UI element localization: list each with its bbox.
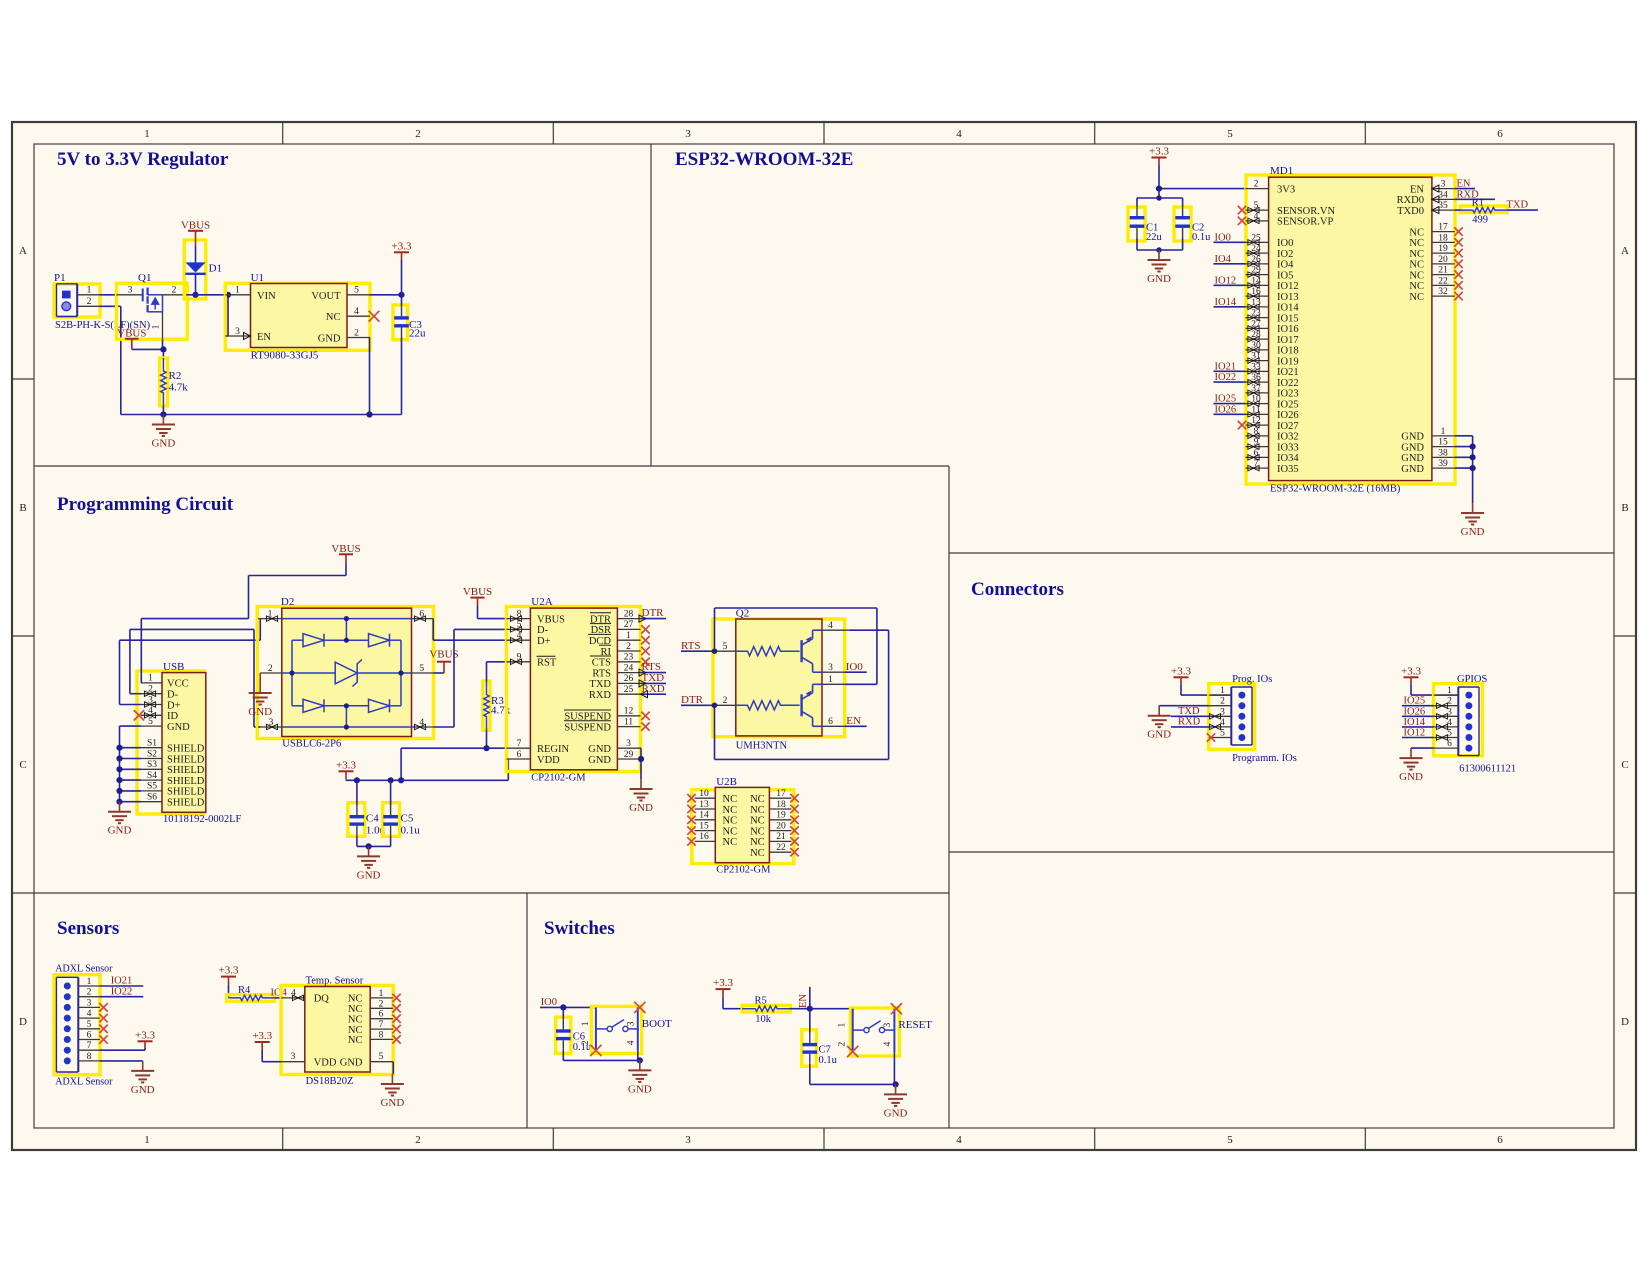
svg-text:10k: 10k (755, 1014, 772, 1025)
svg-text:GND: GND (628, 1083, 652, 1095)
no-connect X BOOT pin2 (590, 1045, 601, 1056)
pin 36 IO22 of MD1 (1246, 381, 1269, 383)
wire down to decoupling caps (1158, 189, 1160, 198)
svg-text:17: 17 (776, 789, 786, 799)
svg-text:S2: S2 (147, 749, 157, 759)
diode D1 selection highlight (184, 240, 206, 299)
pin 6 VDD of U2A (507, 758, 531, 760)
svg-text:2: 2 (415, 1134, 421, 1146)
wire Q1.1 down to node VBUS (162, 339, 164, 349)
svg-text:A: A (1621, 245, 1629, 257)
junction C4 top (354, 777, 360, 783)
pin 34 RXD0 of MD1 (1432, 198, 1455, 200)
resistor R1 selection highlight (1460, 206, 1507, 213)
lower-right diode of D2 (369, 699, 390, 712)
svg-text:3: 3 (626, 739, 631, 749)
resistor R2 selection highlight (160, 358, 168, 406)
svg-text:3: 3 (291, 1052, 296, 1062)
pin 8 NC of DS18B20Z (370, 1038, 393, 1040)
net label IO4 wire R4 to DQ (274, 997, 281, 999)
svg-text:DQ: DQ (314, 994, 330, 1005)
pin 4 of GPIOS (1434, 726, 1459, 728)
svg-text:DTR: DTR (642, 607, 665, 619)
no-connect X marks on U2A right pins (641, 625, 649, 633)
svg-text:USBLC6-2P6: USBLC6-2P6 (282, 739, 341, 750)
transistor Q2 selection highlight (713, 619, 845, 737)
wire shield S2 to bus (120, 758, 142, 760)
junction shield S6 (116, 799, 122, 805)
svg-text:39: 39 (1438, 459, 1448, 469)
svg-text:VBUS: VBUS (537, 614, 565, 625)
wire shield S5 to bus (120, 790, 142, 792)
connector ADXL Sensor selection highlight (54, 975, 100, 1075)
pin 25 RXD of U2A (617, 693, 640, 695)
svg-text:499: 499 (1472, 215, 1488, 226)
module MD1 selection highlight (1246, 175, 1455, 484)
transistor Q2 body (736, 619, 822, 736)
pin 1 DCD of U2A (617, 639, 640, 641)
net label IO21 at ADXL pin1 (100, 985, 143, 987)
ground symbol GND ADXL (142, 1061, 144, 1071)
D2 internal bottom rail (282, 726, 412, 728)
svg-text:18: 18 (776, 800, 786, 810)
net label EN at MD1 (1455, 188, 1475, 190)
pin 5 GND of DS18B20Z (370, 1061, 393, 1063)
wire C4-C5 bottom rail (357, 845, 391, 847)
wire +3.3 down to VOUT node (401, 260, 403, 295)
svg-text:RXD: RXD (1178, 717, 1201, 728)
junction EN-C7 node (807, 1006, 813, 1012)
junction U2A GND29 (638, 756, 644, 762)
svg-text:IO22: IO22 (1215, 372, 1237, 383)
header GPIOS 61300611121 (1457, 674, 1516, 775)
svg-text:R2: R2 (169, 370, 182, 382)
svg-text:GND: GND (248, 706, 272, 718)
svg-text:4.7k: 4.7k (169, 382, 189, 394)
svg-text:TXD: TXD (1178, 706, 1200, 717)
pin 7 REGIN of U2A (507, 747, 531, 749)
net label IO14 at GPIOS (1402, 726, 1434, 728)
svg-text:5: 5 (419, 664, 424, 674)
svg-text:D+: D+ (167, 700, 181, 711)
pin 5 of ADXL Sensor (78, 1028, 100, 1030)
pin 3 of Q1 (117, 294, 143, 296)
svg-text:EN: EN (1457, 179, 1471, 190)
USB bridge U2A selection highlight (507, 607, 641, 772)
svg-text:34: 34 (1438, 190, 1448, 200)
pin 21 NC of MD1 (1432, 274, 1455, 276)
D2 internal junctions (344, 616, 349, 621)
capacitor C4 (356, 780, 358, 805)
pin 20 NC of MD1 (1432, 263, 1455, 265)
svg-text:IO16: IO16 (1277, 324, 1299, 335)
pin 20 NC of U2B (769, 830, 791, 832)
svg-text:RT9080-33GJ5: RT9080-33GJ5 (251, 350, 319, 362)
junction caps rail (1156, 195, 1161, 200)
pin 1 of Prog IOs (1209, 694, 1232, 696)
wire ADXL pin7 to +3.3 (100, 1049, 145, 1051)
svg-text:1: 1 (828, 675, 833, 685)
svg-text:GND: GND (1147, 729, 1171, 741)
svg-text:GND: GND (131, 1084, 155, 1096)
pin 3 of Prog IOs (1209, 715, 1232, 717)
svg-text:5: 5 (1227, 128, 1233, 140)
svg-text:+3.3: +3.3 (1171, 665, 1191, 677)
svg-text:IO26: IO26 (1277, 410, 1299, 421)
junction BOOT GND node (637, 1057, 643, 1063)
wire DS18B20Z GND pin to ground (392, 1062, 394, 1074)
capacitor C3 selection highlight (393, 305, 408, 340)
pin 2 of P1 (77, 305, 99, 307)
pin 16 NC of U2B (695, 840, 716, 842)
pin 1 VCC of USB (141, 682, 162, 684)
svg-text:28: 28 (624, 609, 634, 619)
pin 3 of ADXL Sensor (78, 1006, 100, 1008)
capacitor C6 selection highlight (556, 1017, 571, 1053)
svg-text:Connectors: Connectors (971, 579, 1064, 600)
svg-text:4: 4 (87, 1009, 92, 1019)
net label IO12 at GPIOS (1402, 737, 1434, 739)
svg-text:U2A: U2A (531, 596, 552, 608)
svg-text:1: 1 (626, 631, 631, 641)
junction shield S4 (116, 777, 122, 783)
net label IO26 at GPIOS (1402, 715, 1434, 717)
pin 1 VIN of U1 (225, 294, 250, 296)
net label IO26 wire at MD1 (1214, 413, 1246, 415)
svg-text:GND: GND (884, 1107, 908, 1119)
capacitor C1 (1136, 198, 1138, 206)
wire VBUS to D1 anode (195, 246, 197, 262)
pin 14 NC of U2B (695, 819, 716, 821)
svg-text:+3.3: +3.3 (392, 240, 412, 252)
wire +3.3 to ESP32 3V3 (1158, 166, 1160, 189)
wire GPIOS pin6 to GND (1411, 747, 1434, 749)
svg-text:GND: GND (588, 744, 611, 755)
svg-text:ADXL Sensor: ADXL Sensor (55, 964, 113, 975)
pin 27 IO16 of MD1 (1246, 327, 1269, 329)
svg-text:5V to 3.3V Regulator: 5V to 3.3V Regulator (57, 149, 229, 170)
svg-text:S4: S4 (147, 771, 157, 781)
pin 32 NC of MD1 (1432, 295, 1455, 297)
svg-text:6: 6 (379, 1010, 384, 1020)
pin 10 NC of U2B (695, 797, 716, 799)
svg-text:3: 3 (685, 1134, 691, 1146)
wire Q2 pin1 cross-couple to RTS node (845, 683, 877, 685)
svg-text:Programm. IOs: Programm. IOs (1232, 753, 1297, 764)
wire rail up to U2A VDD (507, 759, 509, 780)
pin 5 SENSOR.VN of MD1 (1246, 209, 1269, 211)
pin 6 of Q2 (813, 725, 822, 727)
svg-text:RTS: RTS (592, 668, 611, 679)
svg-text:IO0: IO0 (541, 997, 557, 1008)
svg-text:38: 38 (1438, 448, 1448, 458)
svg-text:10: 10 (699, 789, 709, 799)
wire shield S4 to bus (120, 779, 142, 781)
svg-text:GND: GND (318, 334, 341, 345)
svg-text:4: 4 (828, 621, 833, 631)
svg-text:1: 1 (152, 324, 162, 329)
svg-text:6: 6 (87, 1031, 92, 1041)
pin 2 of ADXL Sensor (78, 996, 100, 998)
pin 25 IO0 of MD1 (1246, 241, 1269, 243)
svg-text:1: 1 (1441, 427, 1446, 437)
pin 22 NC of MD1 (1432, 284, 1455, 286)
svg-text:1: 1 (87, 977, 92, 987)
svg-text:EN: EN (257, 332, 271, 343)
transistor Q1 (138, 272, 163, 312)
svg-text:26: 26 (624, 674, 634, 684)
connector P1 (54, 272, 77, 317)
USB bridge U2B selection highlight (692, 790, 794, 864)
svg-text:SHIELD: SHIELD (167, 798, 205, 809)
svg-text:3: 3 (1441, 180, 1446, 190)
pin 4 D+ of U2A (507, 639, 531, 641)
svg-text:GND: GND (588, 755, 611, 766)
svg-text:RST: RST (537, 658, 557, 669)
svg-text:+3.3: +3.3 (336, 759, 356, 771)
diode D1 (185, 262, 205, 272)
pin 28 IO17 of MD1 (1246, 338, 1269, 340)
junction C5 top (388, 777, 394, 783)
svg-text:IO14: IO14 (1215, 297, 1237, 308)
wire shield S6 to bus (120, 801, 142, 803)
svg-text:SHIELD: SHIELD (167, 787, 205, 798)
svg-text:IO21: IO21 (1277, 367, 1299, 378)
svg-text:Switches: Switches (544, 918, 615, 939)
svg-text:D1: D1 (209, 263, 222, 275)
row ticks and labels (12, 378, 34, 380)
svg-text:TXD: TXD (589, 679, 611, 690)
svg-text:IO15: IO15 (1277, 313, 1299, 324)
net label IO4 wire at MD1 (1214, 263, 1246, 265)
capacitor C4 selection highlight (348, 803, 365, 837)
svg-text:1: 1 (148, 674, 153, 684)
net label TXD at R1 (1507, 209, 1538, 211)
regulator U1 body (251, 284, 348, 348)
pin 29 IO5 of MD1 (1246, 274, 1269, 276)
pin 3 EN of MD1 (1432, 188, 1455, 190)
svg-text:35: 35 (1438, 201, 1448, 211)
capacitor C5 (390, 780, 392, 805)
pin 18 NC of U2B (769, 808, 791, 810)
lower-left diode of D2 (303, 699, 324, 712)
svg-text:EN: EN (846, 715, 861, 727)
temp sensor DS18B20Z body (305, 987, 370, 1073)
svg-text:5: 5 (354, 286, 359, 296)
svg-text:1: 1 (1220, 686, 1225, 696)
D2 internal upper diode row (292, 639, 303, 641)
svg-text:17: 17 (1438, 223, 1448, 233)
svg-text:IO21: IO21 (111, 976, 133, 987)
temp sensor selection highlight (281, 986, 393, 1075)
net label IO14 wire at MD1 (1214, 306, 1246, 308)
USB bridge U2A body (530, 608, 617, 770)
wire C6 bottom to switch GND (563, 1059, 640, 1061)
svg-text:11: 11 (624, 717, 633, 727)
svg-text:EN: EN (798, 994, 809, 1008)
svg-text:S6: S6 (147, 793, 157, 803)
pin 26 IO4 of MD1 (1246, 263, 1269, 265)
wire R2 bottom to GND rail (162, 406, 164, 415)
svg-text:IO19: IO19 (1277, 356, 1299, 367)
power flag VBUS at D2 pin5 (433, 672, 444, 674)
svg-text:4: 4 (883, 1041, 893, 1046)
svg-text:4: 4 (354, 307, 359, 317)
svg-text:R1: R1 (1472, 197, 1484, 208)
junction GND bus 38 (1470, 454, 1476, 460)
svg-text:RESET: RESET (898, 1019, 932, 1031)
svg-text:22u: 22u (409, 328, 426, 340)
svg-text:SHIELD: SHIELD (167, 744, 205, 755)
svg-text:1: 1 (838, 1022, 848, 1027)
pin 9 RST of U2A (507, 661, 531, 663)
svg-text:D+: D+ (537, 636, 551, 647)
wire VIN to EN tie (227, 295, 229, 336)
svg-text:NC: NC (348, 994, 363, 1005)
header Prog. IOs (1231, 674, 1297, 764)
svg-text:3: 3 (128, 286, 133, 296)
svg-text:+3.3: +3.3 (135, 1029, 155, 1041)
svg-text:3V3: 3V3 (1277, 184, 1295, 195)
svg-text:GND: GND (357, 869, 381, 881)
svg-text:2: 2 (379, 999, 384, 1009)
pin 14 IO12 of MD1 (1246, 284, 1269, 286)
resistor R4 (229, 995, 275, 1000)
pin 1 of P1 (77, 294, 99, 296)
pin 17 NC of MD1 (1432, 231, 1455, 233)
svg-text:2: 2 (723, 696, 728, 706)
pin 5 of D2 (412, 672, 434, 674)
USB connector body (162, 673, 206, 813)
header GPIOS selection highlight (1434, 684, 1483, 756)
junction IO0-C6 (560, 1004, 566, 1010)
svg-text:NC: NC (1409, 260, 1424, 271)
svg-text:GND: GND (151, 438, 175, 450)
svg-text:IO14: IO14 (1277, 303, 1299, 314)
svg-text:NC: NC (1409, 281, 1424, 292)
svg-text:CTS: CTS (592, 658, 611, 669)
svg-text:7: 7 (517, 739, 522, 749)
pin 30 IO18 of MD1 (1246, 349, 1269, 351)
svg-text:GPIOS: GPIOS (1457, 674, 1488, 685)
caps bottom rail (1137, 249, 1183, 251)
pin 17 NC of U2B (769, 797, 791, 799)
svg-text:GND: GND (380, 1097, 404, 1109)
pin 4 ID of USB (141, 714, 162, 716)
junction D1-VIN (192, 292, 198, 298)
net label RXD at Prog IOs (1171, 726, 1209, 728)
svg-text:29: 29 (624, 750, 634, 760)
svg-text:B: B (1621, 502, 1628, 514)
pin 11 IO26 of MD1 (1246, 413, 1269, 415)
svg-text:13: 13 (699, 800, 709, 810)
pin 3 VDD of DS18B20Z (281, 1061, 305, 1063)
svg-text:VBUS: VBUS (331, 543, 360, 555)
wire R3 bottom to REGIN line (486, 730, 488, 748)
svg-text:SUSPEND: SUSPEND (564, 722, 611, 733)
svg-text:5: 5 (1227, 1134, 1233, 1146)
pin S5 SHIELD of USB (141, 790, 162, 792)
wire P1.2 down to GND rail (100, 305, 121, 307)
svg-text:CP2102-GM: CP2102-GM (531, 772, 586, 783)
junction node VBUS-R2 (160, 346, 166, 352)
svg-text:IO18: IO18 (1277, 346, 1299, 357)
ground symbol GND ESP32 (1472, 503, 1474, 513)
svg-text:IO22: IO22 (111, 986, 133, 997)
D2 internal top rail (282, 618, 412, 620)
resistor R3 (484, 681, 489, 730)
pin 2 of GPIOS (1434, 705, 1459, 707)
wire MD1 TXD0 to R1 (1455, 209, 1461, 211)
svg-text:IO0: IO0 (1215, 232, 1231, 243)
pin 2 NC of DS18B20Z (370, 1007, 393, 1009)
svg-text:NC: NC (723, 794, 738, 805)
wire MD1 GND pins to ground bus (1455, 435, 1473, 437)
svg-text:2: 2 (626, 642, 631, 652)
pin 19 NC of MD1 (1432, 252, 1455, 254)
pin 1 of ADXL Sensor (78, 985, 100, 987)
svg-text:16: 16 (699, 832, 709, 842)
svg-text:NC: NC (1409, 227, 1424, 238)
upper transistor of Q2 with base resistor (736, 647, 800, 656)
svg-text:2: 2 (354, 328, 359, 338)
pin 5 of Q2 (713, 650, 736, 652)
svg-text:NC: NC (750, 826, 765, 837)
svg-text:C5: C5 (401, 812, 414, 824)
wire D2 pin6 to U2A D+ (432, 619, 434, 641)
svg-text:0.1u: 0.1u (1192, 232, 1211, 243)
svg-text:B: B (19, 502, 26, 514)
pin 12 SUSPEND of U2A (617, 715, 640, 717)
ground symbol GND BOOT (639, 1060, 641, 1070)
svg-text:15: 15 (699, 821, 709, 831)
pin 37 IO23 of MD1 (1246, 392, 1269, 394)
pin 33 IO21 of MD1 (1246, 370, 1269, 372)
svg-text:20: 20 (776, 821, 786, 831)
svg-text:IO23: IO23 (1277, 389, 1299, 400)
svg-text:21: 21 (1438, 266, 1448, 276)
pin 13 NC of U2B (695, 808, 716, 810)
svg-text:R5: R5 (755, 996, 767, 1007)
no-connect X marks ADXL pins 3-6 (99, 1003, 107, 1011)
svg-text:D-: D- (167, 690, 179, 701)
svg-text:GND: GND (1401, 442, 1424, 453)
wire +3.3 to GPIOS pin1 (1410, 685, 1412, 695)
svg-text:2: 2 (1254, 180, 1259, 190)
pin 23 CTS of U2A (617, 661, 640, 663)
pin 27 DSR of U2A (617, 628, 640, 630)
svg-text:+3.3: +3.3 (713, 977, 733, 989)
pin 7 of ADXL Sensor (78, 1049, 100, 1051)
svg-text:SHIELD: SHIELD (167, 776, 205, 787)
svg-text:GND: GND (1147, 273, 1171, 285)
svg-text:IO4: IO4 (1215, 254, 1232, 265)
pin S4 SHIELD of USB (141, 779, 162, 781)
svg-text:IO25: IO25 (1277, 399, 1299, 410)
pin 3 of Q2 (813, 671, 822, 673)
pin 2 D- of USB (141, 693, 162, 695)
pin 39 GND of MD1 (1432, 467, 1455, 469)
svg-text:IO26: IO26 (1215, 404, 1237, 415)
svg-text:5: 5 (148, 717, 153, 727)
svg-text:NC: NC (750, 837, 765, 848)
svg-text:6: 6 (1497, 128, 1503, 140)
svg-text:+3.3: +3.3 (219, 965, 239, 977)
junction GND bus 15 (1470, 444, 1476, 450)
svg-text:+3.3: +3.3 (252, 1030, 272, 1042)
svg-text:22u: 22u (1146, 232, 1163, 243)
junction shield S5 (116, 788, 122, 794)
